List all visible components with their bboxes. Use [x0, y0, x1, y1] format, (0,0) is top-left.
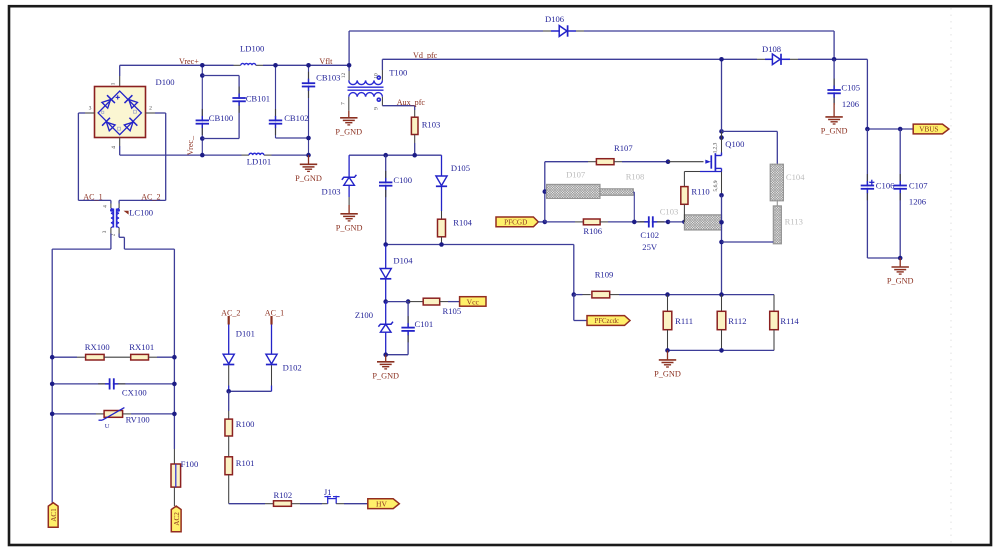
svg-text:CB101: CB101 — [246, 94, 270, 104]
svg-text:CB102: CB102 — [284, 113, 308, 123]
svg-text:1206: 1206 — [909, 197, 927, 207]
port AC_1 bottom flag — [48, 503, 58, 528]
resistor R112 — [721, 295, 723, 312]
capacitor C103 not fitted — [684, 215, 721, 230]
resistor R105 — [423, 298, 440, 305]
svg-text:R112: R112 — [728, 316, 746, 326]
svg-text:J1: J1 — [324, 487, 332, 497]
wire bridge pin1 — [119, 65, 121, 76]
wire RV row — [52, 413, 96, 415]
ground P_GND under C107 — [899, 258, 901, 267]
capacitor CB100 — [201, 65, 203, 155]
capacitor C102 — [640, 221, 668, 223]
svg-text:D106: D106 — [545, 14, 565, 24]
svg-text:12: 12 — [341, 73, 347, 79]
power port VBUS — [913, 124, 949, 134]
svg-text:P_GND: P_GND — [372, 371, 399, 380]
svg-text:2: 2 — [149, 106, 152, 112]
wire C104 to R113 — [776, 201, 778, 206]
svg-text:D107: D107 — [566, 169, 586, 179]
svg-text:LC100: LC100 — [129, 208, 153, 218]
svg-text:AC2: AC2 — [173, 512, 181, 526]
svg-text:P_GND: P_GND — [336, 223, 363, 232]
svg-text:C100: C100 — [393, 175, 412, 185]
svg-text:LD101: LD101 — [247, 157, 271, 167]
svg-text:9: 9 — [373, 107, 379, 110]
zener Z100 — [385, 302, 387, 324]
wire Vcc node row — [383, 299, 388, 304]
transformer T100 — [348, 65, 350, 71]
svg-text:HV: HV — [376, 499, 387, 508]
svg-text:C106: C106 — [876, 180, 895, 190]
svg-text:D101: D101 — [236, 328, 255, 338]
svg-text:PFCGD: PFCGD — [504, 219, 527, 227]
resistor R104 — [438, 219, 446, 237]
wire RX row — [52, 356, 77, 358]
svg-text:AC1: AC1 — [50, 508, 58, 522]
resistor RX101 — [131, 354, 149, 360]
svg-text:CX100: CX100 — [122, 387, 147, 397]
wire bridge pin4 — [119, 138, 121, 147]
diode D103 zener to ground — [348, 155, 350, 177]
ground P_GND under D103 — [348, 205, 350, 214]
svg-text:F100: F100 — [181, 459, 199, 469]
svg-text:3: 3 — [102, 230, 108, 233]
resistor R103 — [414, 110, 416, 117]
wire R109 row — [572, 292, 577, 297]
svg-text:AC_2: AC_2 — [221, 308, 240, 317]
diode D108 — [765, 58, 772, 60]
svg-text:R100: R100 — [236, 419, 255, 429]
svg-text:R103: R103 — [422, 120, 441, 130]
resistor R110 — [683, 172, 685, 187]
svg-text:PFCzcdc: PFCzcdc — [594, 318, 619, 325]
resistor R106 — [583, 219, 600, 225]
ground P_GND under Vrec- rail — [308, 155, 310, 164]
resistor RX100 — [86, 354, 105, 360]
wire to VBUS — [866, 59, 868, 129]
wire aux row y155 — [349, 154, 441, 156]
wire bridge pin2 to AC_2 — [146, 112, 156, 114]
diode D102 — [271, 325, 273, 354]
transformer T100 pin 7 to ground — [348, 97, 350, 111]
resistor R113 not fitted — [773, 206, 781, 244]
wire D106 to C105 node — [833, 31, 835, 59]
svg-text:Aux_pfc: Aux_pfc — [397, 98, 426, 107]
svg-text:R106: R106 — [583, 226, 602, 236]
wire PFCGD vertical — [544, 162, 546, 222]
svg-text:C104: C104 — [786, 172, 805, 182]
bridge diode bottom-left — [102, 118, 116, 132]
svg-text:P_GND: P_GND — [654, 369, 681, 378]
capacitor CB101 — [202, 75, 239, 77]
ground P_GND under T100 — [348, 111, 350, 118]
svg-text:RX100: RX100 — [85, 342, 110, 352]
svg-text:10: 10 — [373, 73, 379, 79]
svg-text:D100: D100 — [156, 77, 175, 87]
svg-text:R108: R108 — [626, 171, 645, 181]
power port HV — [368, 499, 400, 509]
svg-text:R101: R101 — [236, 458, 255, 468]
svg-text:T100: T100 — [389, 67, 407, 77]
svg-text:D108: D108 — [762, 44, 781, 54]
capacitor CB102 — [275, 65, 277, 138]
svg-text:RV100: RV100 — [126, 414, 150, 424]
svg-text:AC_2: AC_2 — [141, 192, 160, 201]
wire D101 D102 junction — [229, 390, 272, 392]
wire Z100 C101 bottom — [386, 354, 408, 356]
svg-text:1: 1 — [111, 82, 117, 85]
capacitor C101 — [407, 302, 409, 355]
svg-text:RX101: RX101 — [129, 342, 154, 352]
diode D106 — [551, 30, 559, 32]
bridge diode top-right — [124, 95, 138, 109]
svg-text:C105: C105 — [841, 83, 860, 93]
transformer T100 pin 9 Aux_pfc — [381, 97, 383, 106]
svg-text:R109: R109 — [595, 269, 614, 279]
svg-text:25V: 25V — [642, 242, 658, 252]
resistor R114 — [773, 295, 775, 312]
svg-text:R111: R111 — [675, 316, 693, 326]
svg-text:D102: D102 — [283, 362, 302, 372]
svg-text:R114: R114 — [780, 316, 799, 326]
svg-text:R102: R102 — [274, 490, 293, 500]
resistor R107 — [596, 159, 614, 165]
svg-text:Z100: Z100 — [355, 310, 373, 320]
wire LC100 bottom-right to AC_2 line — [118, 234, 120, 238]
wire Vd_pfc rail — [382, 58, 757, 60]
capacitor C107 — [899, 129, 901, 258]
svg-text:Vrec_: Vrec_ — [186, 135, 195, 155]
port AC_2 bottom flag — [171, 506, 181, 532]
wire source row to R113 bottom — [722, 241, 774, 243]
power port Vcc — [460, 297, 486, 307]
capacitor C105 — [833, 59, 835, 103]
wire row y244.5 — [386, 244, 574, 246]
svg-text:C107: C107 — [909, 180, 928, 190]
ground P_GND under Z100 — [385, 355, 387, 362]
svg-text:U: U — [105, 423, 110, 430]
fuse F100 — [173, 449, 175, 464]
wire divider bottom row — [668, 349, 775, 351]
resistor R111 — [667, 295, 669, 312]
svg-text:LD100: LD100 — [240, 44, 264, 54]
svg-text:P_GND: P_GND — [887, 277, 914, 286]
svg-text:CB103: CB103 — [316, 72, 340, 82]
svg-text:1,2,3: 1,2,3 — [713, 142, 719, 153]
svg-text:1206: 1206 — [842, 99, 860, 109]
transformer T100 pin 10 — [381, 70, 383, 80]
wire CX row — [52, 383, 174, 385]
resistor R101 — [225, 457, 233, 475]
wire drain to C104 — [722, 130, 778, 132]
svg-text:CB100: CB100 — [209, 113, 233, 123]
wire Q100 drain — [721, 59, 723, 131]
capacitor CB103 — [308, 65, 310, 155]
diode D107 not fitted — [543, 189, 548, 194]
svg-text:3: 3 — [89, 106, 92, 112]
wire Vrec+ rail — [120, 64, 234, 66]
svg-text:D105: D105 — [451, 163, 470, 173]
ground P_GND under R111 — [667, 350, 669, 360]
svg-text:Vrec+: Vrec+ — [179, 57, 199, 66]
svg-text:7: 7 — [341, 102, 347, 105]
wire R100-R101 — [228, 436, 230, 457]
diode D101 — [228, 325, 230, 354]
bridge rectifier D100 — [95, 87, 146, 138]
svg-text:R113: R113 — [785, 216, 803, 226]
svg-text:D104: D104 — [393, 255, 413, 265]
svg-text:P_GND: P_GND — [821, 126, 848, 135]
svg-text:R107: R107 — [614, 143, 633, 153]
svg-text:5,6,9: 5,6,9 — [713, 180, 719, 191]
capacitor CX100 — [98, 383, 105, 385]
resistor R100 — [225, 419, 233, 436]
wire C106 C107 bottom — [867, 257, 900, 259]
inductor LD101 — [249, 153, 264, 155]
svg-text:AC_1: AC_1 — [265, 308, 284, 317]
svg-text:R105: R105 — [443, 306, 462, 316]
resistor R109 — [592, 291, 610, 298]
svg-text:P_GND: P_GND — [335, 127, 362, 136]
diode D105 — [441, 155, 443, 175]
jumper J1 — [327, 496, 329, 504]
wire gate pin — [668, 161, 704, 163]
svg-text:VBUS: VBUS — [919, 126, 938, 134]
wire LC100 bottom-left to AC_1 line — [110, 234, 112, 250]
bridge diode bottom-right — [123, 118, 137, 132]
svg-text:4: 4 — [103, 205, 109, 208]
svg-text:C103: C103 — [660, 207, 679, 217]
bridge diode top-left — [101, 95, 115, 109]
power port PFCGD — [496, 217, 538, 227]
resistor R108 not fitted — [600, 189, 633, 196]
wire Vrec- rail — [120, 154, 242, 156]
ground P_GND under C105 — [833, 103, 835, 117]
svg-text:AC_1: AC_1 — [83, 192, 102, 201]
wire R101 down to R102 row — [228, 475, 230, 504]
svg-text:Q100: Q100 — [725, 139, 744, 149]
svg-text:R104: R104 — [453, 217, 472, 227]
svg-text:Vflt: Vflt — [319, 57, 333, 66]
varistor RV100 — [104, 411, 123, 418]
svg-text:4: 4 — [111, 146, 117, 149]
inductor LD100 — [241, 63, 256, 65]
svg-text:P_GND: P_GND — [295, 174, 322, 183]
svg-text:C102: C102 — [640, 230, 659, 240]
wire R106 row — [545, 221, 575, 223]
wire R107 row — [545, 161, 588, 163]
resistor R102 — [274, 501, 292, 507]
diode D104 — [385, 245, 387, 269]
wire Q100 source down — [721, 195, 723, 294]
capacitor C106 polarized — [866, 129, 868, 258]
wire bridge pin3 to AC_1 — [85, 112, 95, 114]
inductor LC100 common-mode choke — [110, 200, 112, 203]
svg-text:D103: D103 — [322, 186, 341, 196]
svg-text:Vcc: Vcc — [467, 297, 480, 306]
svg-text:C101: C101 — [415, 319, 434, 329]
wire R110 top to source — [684, 171, 700, 173]
svg-text:R110: R110 — [691, 187, 709, 197]
capacitor C100 — [385, 155, 387, 244]
wire top rail through D106 — [349, 30, 543, 32]
capacitor C104 not fitted — [770, 164, 783, 201]
power port PFCzcdc — [573, 295, 575, 321]
mosfet Q100 — [719, 129, 724, 134]
